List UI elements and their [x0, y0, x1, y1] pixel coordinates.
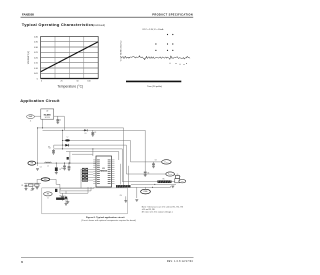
svg-text:FAN2558: FAN2558: [22, 13, 34, 17]
svg-text:Figure 6. Typical application: Figure 6. Typical application circuit: [86, 216, 125, 219]
svg-text:±5% on R5, R6.: ±5% on R5, R6.: [142, 209, 156, 211]
svg-text:VOUT2: VOUT2: [168, 174, 172, 176]
svg-text:(continued): (continued): [93, 24, 105, 27]
svg-text:0.30: 0.30: [34, 47, 38, 49]
svg-text:0.20: 0.20: [34, 57, 38, 59]
svg-text:0: 0: [41, 81, 42, 83]
svg-text:C10: C10: [120, 195, 123, 197]
svg-text:0: 0: [37, 78, 38, 80]
svg-text:GND: GND: [181, 181, 184, 183]
svg-text:Q1: Q1: [177, 174, 179, 176]
svg-text:L1: L1: [47, 165, 49, 167]
svg-text:R1: R1: [22, 185, 24, 187]
svg-text:0.15: 0.15: [34, 63, 38, 65]
svg-text:100: 100: [87, 81, 90, 83]
svg-text:PRODUCT SPECIFICATION: PRODUCT SPECIFICATION: [152, 13, 193, 17]
svg-text:15: 15: [47, 198, 49, 200]
svg-text:U2: U2: [46, 111, 48, 113]
svg-text:SOT-23: SOT-23: [45, 117, 50, 119]
svg-text:Application Circuit: Application Circuit: [20, 98, 60, 103]
svg-text:PGND: PGND: [143, 191, 147, 193]
svg-text:0.40: 0.40: [34, 36, 38, 38]
svg-text:VOUT1: VOUT1: [164, 162, 168, 164]
svg-text:(R ratio sets the output volta: (R ratio sets the output voltage.): [142, 211, 173, 214]
svg-text:EN: EN: [44, 179, 46, 181]
svg-text:0.35: 0.35: [34, 42, 38, 44]
svg-text:0.10: 0.10: [34, 68, 38, 70]
svg-text:REV. 1.0.8 12/17/04: REV. 1.0.8 12/17/04: [167, 261, 194, 263]
svg-text:C3: C3: [94, 132, 96, 134]
svg-text:FAN2558: FAN2558: [100, 170, 108, 173]
svg-text:0.05: 0.05: [34, 73, 38, 75]
svg-text:50: 50: [76, 81, 78, 83]
svg-text:C8: C8: [147, 173, 149, 175]
svg-text:ML4890: ML4890: [44, 113, 51, 116]
svg-text:Typical Operating Characterist: Typical Operating Characteristics: [22, 22, 94, 27]
svg-text:C9: C9: [155, 159, 157, 161]
svg-text:0.25: 0.25: [34, 52, 38, 54]
svg-text:D1: D1: [85, 133, 87, 135]
svg-text:C1: C1: [40, 167, 42, 169]
svg-text:VIN: VIN: [31, 163, 34, 165]
svg-text:Time (20 µs/div): Time (20 µs/div): [147, 86, 162, 88]
svg-text:TP1: TP1: [47, 194, 50, 196]
svg-text:C2: C2: [59, 119, 61, 121]
svg-text:R2: R2: [31, 190, 33, 192]
svg-text:VOS DRIFT (V): VOS DRIFT (V): [28, 51, 30, 64]
svg-text:R4: R4: [59, 196, 61, 198]
svg-text:Temperature (°C): Temperature (°C): [57, 84, 83, 88]
svg-text:V OUT NOISE 20mV/div: V OUT NOISE 20mV/div: [121, 41, 123, 62]
svg-text:C6: C6: [61, 168, 63, 170]
svg-text:(Circuit shown with optional c: (Circuit shown with optional components …: [81, 219, 136, 222]
svg-text:R5: R5: [163, 179, 165, 181]
svg-text:25: 25: [60, 81, 62, 83]
svg-text:C4: C4: [49, 148, 51, 150]
